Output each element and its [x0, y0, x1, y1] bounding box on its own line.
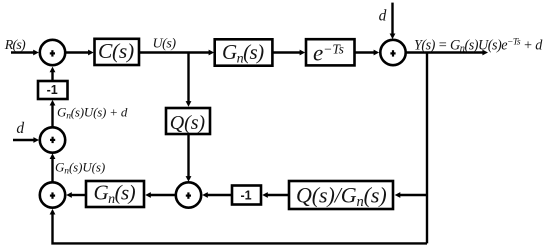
- plus sign in S1: [50, 50, 55, 56]
- plus sign in S4: [50, 192, 55, 198]
- wire S1 to C(s): [66, 50, 94, 56]
- block Q(s)/Gn(s): [289, 181, 393, 209]
- svg-text:Gn(s): Gn(s): [222, 40, 264, 67]
- svg-text:Q(s): Q(s): [170, 112, 206, 134]
- summing junction S4 (bottom-left): [40, 182, 65, 207]
- svg-text:Y(s) = Gn(s)U(s)e−Ts + d: Y(s) = Gn(s)U(s)e−Ts + d: [414, 38, 543, 55]
- svg-text:Gn(s)U(s) + d: Gn(s)U(s) + d: [57, 105, 128, 122]
- svg-text:Gn(s)U(s): Gn(s)U(s): [55, 160, 105, 177]
- block -1 (bottom): [232, 186, 261, 205]
- block e^-Ts: [306, 39, 355, 65]
- block Gn(s) top: [215, 39, 273, 65]
- wire Gn(s) bottom to summing junction S4: [66, 192, 86, 198]
- wire d into S3 from left: [13, 137, 39, 143]
- svg-text:d: d: [379, 7, 387, 24]
- svg-text:U(s): U(s): [153, 37, 177, 52]
- wire output branch down at node x=427: [426, 53, 428, 244]
- wire S2 to output Y(s): [406, 50, 488, 56]
- summing junction S3 (middle-left): [40, 127, 65, 152]
- svg-text:-1: -1: [47, 83, 58, 97]
- wire e^-Ts to summing junction S2: [355, 50, 379, 56]
- plus sign in S5: [186, 192, 191, 198]
- wire S3 up into -1 block (top): [50, 100, 56, 127]
- svg-text:Q(s)/Gn(s): Q(s)/Gn(s): [296, 183, 387, 211]
- summing junction S5 (bottom-middle): [176, 182, 201, 207]
- svg-text:-1: -1: [241, 189, 252, 203]
- wire d into S2 from top: [390, 3, 396, 40]
- svg-text:C(s): C(s): [98, 39, 134, 63]
- summing junction S1 (top-left): [40, 40, 65, 65]
- svg-text:e−Ts: e−Ts: [313, 40, 344, 65]
- svg-text:Gn(s): Gn(s): [94, 181, 136, 208]
- wire bottom feedback line: [50, 209, 427, 244]
- block C(s): [95, 39, 140, 65]
- wire Q(s)/Gn(s) to -1 (bottom): [262, 192, 289, 198]
- wire -1 top up into S1: [50, 67, 56, 81]
- svg-text:d: d: [16, 120, 24, 137]
- block -1 (top): [38, 81, 68, 99]
- svg-text:R(s): R(s): [4, 38, 26, 53]
- summing junction S2 (top-right): [380, 40, 405, 65]
- wire U(s) node down into Q(s): [186, 53, 192, 107]
- wire S4 up to S3: [50, 153, 56, 182]
- wire R(s) input arrow into summing junction S1: [11, 50, 39, 56]
- wire Q(s) down into S5: [186, 134, 192, 182]
- wire S5 to Gn(s) bottom: [145, 192, 175, 198]
- wire C(s) to Gn(s) with U(s) node: [139, 50, 214, 56]
- wire Gn(s) to e^-Ts: [273, 50, 305, 56]
- wire branch into Q(s)/Gn(s) block: [395, 192, 427, 198]
- wire -1 to summing junction S5: [202, 192, 232, 198]
- block Gn(s) bottom: [86, 181, 144, 207]
- plus sign in S3: [50, 137, 55, 143]
- plus sign in S2: [390, 50, 395, 56]
- block Q(s): [166, 108, 210, 134]
